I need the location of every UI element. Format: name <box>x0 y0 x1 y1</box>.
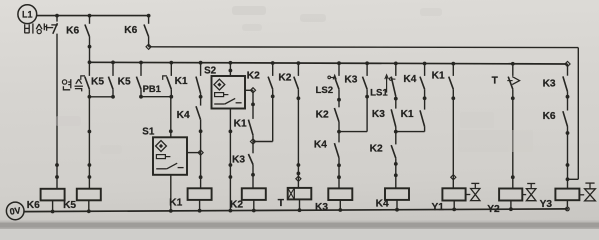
contact K2 below LS2 <box>334 108 341 134</box>
svg-text:K1: K1 <box>234 118 247 129</box>
svg-text:K1: K1 <box>401 109 414 120</box>
bus junction <box>511 62 515 66</box>
bus junction <box>199 61 203 65</box>
svg-text:K6: K6 <box>27 200 40 211</box>
wire S1 to 0V rail <box>170 175 172 211</box>
coil Y3 <box>555 189 579 211</box>
label K2 contact b <box>278 72 291 83</box>
label Y3 coil <box>540 199 553 210</box>
svg-text:T: T <box>278 198 285 209</box>
label K3 coil <box>315 202 328 213</box>
top rail wire L1 <box>37 14 151 18</box>
label K1 row2 contact <box>234 118 247 129</box>
contact LS1 limit switch <box>385 63 398 108</box>
emergency NC pushbutton (비상) <box>47 16 58 34</box>
contact K3 below LS1 <box>391 109 397 133</box>
label K4 contact top <box>403 74 416 85</box>
label K6 second contact <box>124 25 137 36</box>
label K3 right <box>543 78 556 89</box>
solenoid valve Y1 <box>466 183 480 200</box>
svg-text:K3: K3 <box>344 74 357 85</box>
label K1 row2 <box>401 109 414 120</box>
coil K6 <box>41 189 65 212</box>
svg-text:K5: K5 <box>63 200 76 211</box>
label K5 coil <box>63 200 76 211</box>
wire S2 output <box>245 88 256 93</box>
bottom rail wire 0V <box>24 207 568 213</box>
svg-text:K5: K5 <box>91 76 104 87</box>
svg-text:K2: K2 <box>370 144 383 155</box>
label K2 coil <box>230 199 243 210</box>
label S1 <box>142 126 155 137</box>
label LS1 <box>370 87 388 98</box>
contact K1 below S2 <box>248 90 255 144</box>
svg-text:K4: K4 <box>403 74 416 85</box>
coil T timer <box>288 188 312 210</box>
wire to K6 coil <box>55 34 59 189</box>
L1 supply terminal <box>18 5 37 24</box>
label K6 right <box>543 111 556 122</box>
svg-text:K5: K5 <box>118 76 131 87</box>
svg-text:K3: K3 <box>232 154 245 165</box>
svg-text:K3: K3 <box>372 109 385 120</box>
label LS2 <box>315 85 333 96</box>
label K4 contact <box>177 110 190 121</box>
bus junction <box>271 61 275 65</box>
sensor S1 box <box>153 137 187 175</box>
bus junction <box>297 61 301 65</box>
svg-text:K2: K2 <box>316 109 329 120</box>
label K1 top right <box>432 71 445 82</box>
contact LS2 limit switch <box>328 63 341 107</box>
wire joining LS1 and K4 branches <box>396 131 425 133</box>
label T coil <box>278 198 285 209</box>
label K1 contact <box>175 76 188 87</box>
coil Y1 <box>442 188 465 209</box>
label K2 row2 <box>316 109 329 120</box>
bus junction <box>365 61 369 65</box>
svg-text:L1: L1 <box>22 9 33 19</box>
svg-text:PB1: PB1 <box>143 83 161 94</box>
label K4 row3 <box>314 140 327 151</box>
svg-text:K4: K4 <box>376 198 389 209</box>
solenoid valve Y3 <box>579 183 595 201</box>
wire joining PB1 and K1 <box>141 96 171 98</box>
contact K4 lower <box>334 132 341 189</box>
label K5 contact b <box>118 76 131 87</box>
svg-text:K4: K4 <box>314 140 327 151</box>
contact 연속 selector <box>81 62 92 98</box>
svg-text:T: T <box>492 76 499 87</box>
label T contact <box>492 76 499 87</box>
sensor S2 box <box>212 76 246 109</box>
label K3 contact top <box>344 74 357 85</box>
label K6 contact <box>66 25 79 36</box>
label K5 contact a <box>91 76 104 87</box>
solenoid valve Y2 <box>522 184 536 201</box>
contact PB1 pushbutton <box>136 63 143 99</box>
svg-text:S2: S2 <box>204 65 217 76</box>
coil Y2 <box>499 189 522 210</box>
contact K6 latching <box>85 16 92 63</box>
svg-text:K2: K2 <box>278 72 291 83</box>
svg-text:K6: K6 <box>124 25 137 36</box>
coil K2 <box>242 188 266 210</box>
bus junction <box>337 61 341 65</box>
label Y2 coil <box>487 204 500 215</box>
bus junction <box>88 60 92 64</box>
bus junction <box>169 61 173 65</box>
contact K3 top row <box>363 63 370 131</box>
paper edge shadow <box>0 221 599 230</box>
label PB1 <box>143 83 161 94</box>
label 비상 (emergency) <box>25 23 47 33</box>
wire down to sensor S1 <box>169 97 173 138</box>
bus junction <box>111 61 115 65</box>
contact K2 for timer <box>294 63 301 188</box>
svg-text:K1: K1 <box>169 197 182 208</box>
coil K4 <box>385 188 409 209</box>
bus junction <box>394 62 398 66</box>
faint page bleed-through smudges <box>55 6 533 154</box>
contact K4 row2 <box>196 106 203 188</box>
control bus wire <box>90 61 571 66</box>
svg-text:K1: K1 <box>175 76 188 87</box>
label K2 contact a <box>247 71 260 82</box>
contact K2 latch <box>268 63 275 142</box>
contact K6 right <box>563 111 569 188</box>
label K3 row3 contact <box>232 154 245 165</box>
wire joining K5 branches <box>89 96 113 98</box>
wire joining K2 branches <box>253 141 273 143</box>
contact T timed <box>507 64 519 189</box>
coil K3 <box>328 188 352 210</box>
bus junction <box>451 62 455 66</box>
contact K3 below <box>248 142 255 189</box>
coil K5 <box>77 189 101 212</box>
contact K3 right <box>563 64 569 111</box>
bus junction <box>139 61 143 65</box>
svg-text:K4: K4 <box>177 110 190 121</box>
sensor S2 symbol <box>214 79 242 104</box>
label 연속 (continuous) <box>62 79 83 91</box>
wire bus to S2 <box>229 63 233 76</box>
contact K1 row1 <box>196 63 203 106</box>
bus junction <box>423 62 427 66</box>
svg-text:K6: K6 <box>66 25 79 36</box>
contact K2 lower <box>391 132 397 189</box>
wire S2 to 0V rail <box>229 109 233 211</box>
label K3 row2 <box>372 109 385 120</box>
label K1 coil <box>169 197 182 208</box>
label S2 <box>204 65 217 76</box>
contact K1 latch <box>163 63 174 99</box>
contact K1 for Y1 <box>449 64 456 189</box>
sensor S1 symbol <box>156 141 184 169</box>
coil K1 <box>188 188 212 210</box>
svg-text:K1: K1 <box>432 71 445 82</box>
svg-text:0V: 0V <box>9 205 21 216</box>
wire across top to right side <box>149 47 579 180</box>
bus junction <box>229 61 233 65</box>
contact K5 parallel <box>108 62 115 98</box>
wire joining LS2 and K3 branches <box>339 131 367 133</box>
label K6 coil <box>27 200 40 211</box>
svg-text:K3: K3 <box>315 202 328 213</box>
svg-text:S1: S1 <box>142 126 155 137</box>
svg-text:LS2: LS2 <box>315 85 333 96</box>
contact K1 below K4 <box>420 110 425 131</box>
svg-text:LS1: LS1 <box>370 87 388 98</box>
label K4 coil <box>376 198 389 209</box>
contact K4 top row <box>420 64 427 110</box>
wire down to K5 coil <box>88 97 92 189</box>
svg-text:K2: K2 <box>230 199 243 210</box>
wire S1 output <box>187 150 203 155</box>
label Y1 coil <box>431 202 444 213</box>
0V supply terminal <box>6 202 24 220</box>
svg-text:K2: K2 <box>247 71 260 82</box>
svg-text:K3: K3 <box>543 78 556 89</box>
svg-text:K6: K6 <box>543 111 556 122</box>
svg-text:Y1: Y1 <box>431 202 444 213</box>
label K2 row3 <box>370 144 383 155</box>
contact K6 upper right <box>144 16 151 50</box>
